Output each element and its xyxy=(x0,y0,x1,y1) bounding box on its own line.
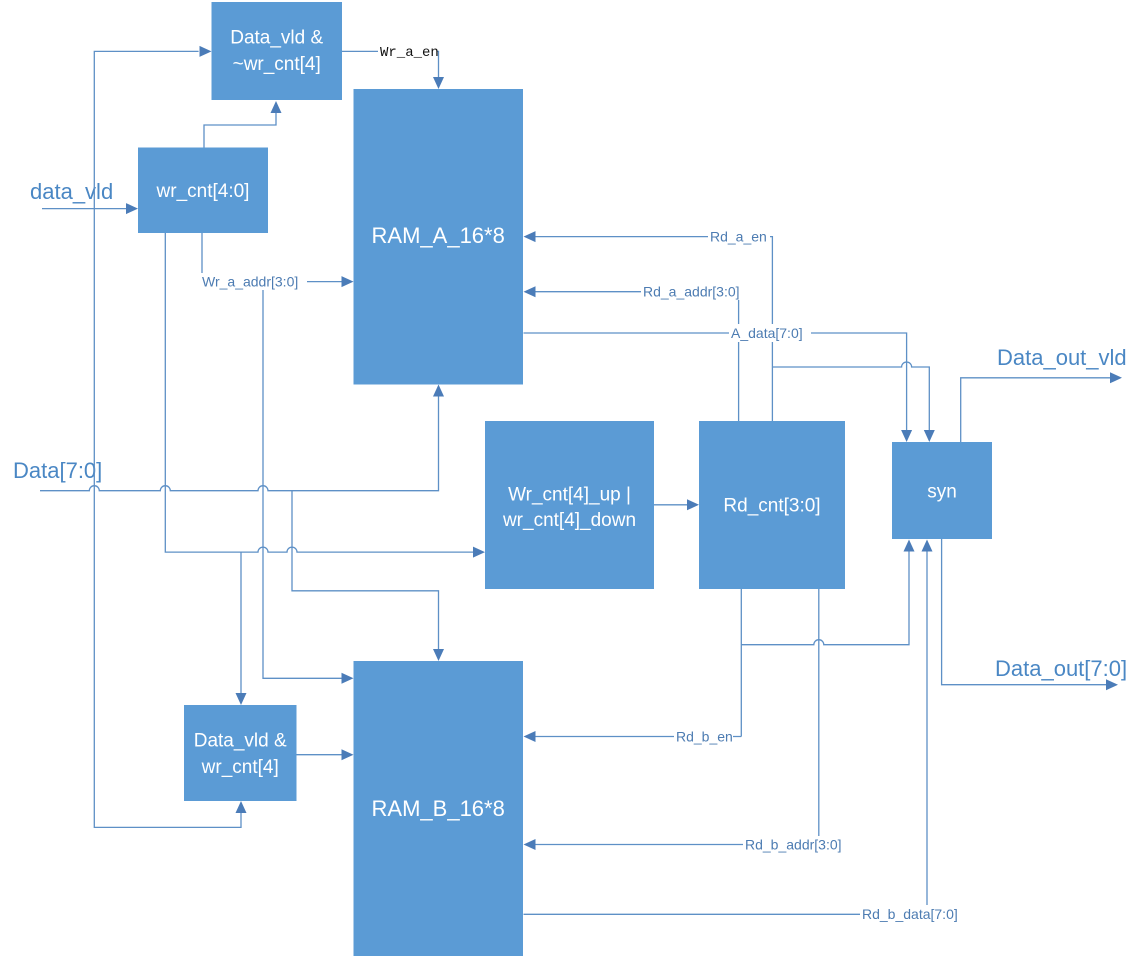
svg-text:Data_out[7:0]: Data_out[7:0] xyxy=(995,656,1127,681)
svg-text:Rd_a_addr[3:0]: Rd_a_addr[3:0] xyxy=(643,284,740,300)
svg-text:RAM_B_16*8: RAM_B_16*8 xyxy=(372,796,505,821)
svg-text:Wr_a_addr[3:0]: Wr_a_addr[3:0] xyxy=(202,274,298,290)
svg-text:Rd_b_en: Rd_b_en xyxy=(676,729,733,745)
svg-text:Rd_b_addr[3:0]: Rd_b_addr[3:0] xyxy=(745,837,842,853)
svg-text:Data_vld &: Data_vld & xyxy=(230,28,323,49)
svg-text:Wr_cnt[4]_up |: Wr_cnt[4]_up | xyxy=(508,485,631,506)
svg-text:Wr_a_en: Wr_a_en xyxy=(380,45,439,61)
svg-text:A_data[7:0]: A_data[7:0] xyxy=(731,325,803,341)
svg-text:Rd_a_en: Rd_a_en xyxy=(710,229,767,245)
svg-text:~wr_cnt[4]: ~wr_cnt[4] xyxy=(233,54,321,75)
svg-text:Data_out_vld: Data_out_vld xyxy=(997,345,1127,370)
svg-text:RAM_A_16*8: RAM_A_16*8 xyxy=(372,223,505,248)
svg-text:wr_cnt[4:0]: wr_cnt[4:0] xyxy=(156,181,250,202)
svg-text:Rd_b_data[7:0]: Rd_b_data[7:0] xyxy=(862,906,958,922)
svg-text:Rd_cnt[3:0]: Rd_cnt[3:0] xyxy=(723,496,820,517)
svg-text:data_vld: data_vld xyxy=(30,179,113,204)
svg-text:Data[7:0]: Data[7:0] xyxy=(13,458,102,483)
svg-text:wr_cnt[4]_down: wr_cnt[4]_down xyxy=(502,510,636,531)
svg-text:wr_cnt[4]: wr_cnt[4] xyxy=(201,757,279,778)
svg-text:Data_vld &: Data_vld & xyxy=(194,731,287,752)
svg-text:syn: syn xyxy=(927,482,957,503)
